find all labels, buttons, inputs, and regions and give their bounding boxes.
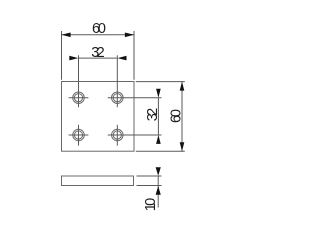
svg-text:60: 60 bbox=[92, 21, 106, 37]
svg-text:32: 32 bbox=[91, 45, 105, 61]
svg-text:60: 60 bbox=[168, 109, 184, 123]
svg-text:32: 32 bbox=[145, 108, 161, 122]
svg-text:10: 10 bbox=[143, 198, 159, 212]
